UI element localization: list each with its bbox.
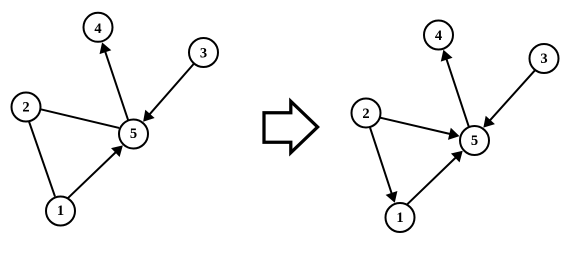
svg-text:1: 1 xyxy=(396,210,403,226)
node 2 circle (right graph) xyxy=(352,99,381,128)
wire edge 2 to 1 plain line (left graph) xyxy=(27,116,55,196)
block arrow symbol (implies / transform) xyxy=(264,101,318,152)
svg-text:1: 1 xyxy=(57,203,64,219)
wire edge 3 to 5 with arrowhead (left graph) xyxy=(143,60,197,122)
node 5 circle (right graph) xyxy=(460,126,489,155)
svg-text:4: 4 xyxy=(94,21,101,37)
node 5 circle (left graph) xyxy=(119,120,148,149)
svg-text:2: 2 xyxy=(22,100,29,116)
svg-text:5: 5 xyxy=(130,126,137,142)
wire edge 2 to 1 with arrowhead (right graph) xyxy=(368,122,397,203)
svg-text:3: 3 xyxy=(200,46,207,62)
node 4 circle (left graph) xyxy=(84,13,113,42)
wire edge 5 to 4 with arrowhead (right graph) xyxy=(441,50,471,132)
svg-text:2: 2 xyxy=(362,106,369,122)
node 4 circle (right graph) xyxy=(424,21,453,50)
wire edge 1 to 5 with arrowhead (right graph) xyxy=(403,151,463,209)
wire edge 5 to 4 with arrowhead (left graph) xyxy=(100,42,130,125)
wire edge 1 to 5 with arrowhead (left graph) xyxy=(64,145,123,202)
wire edge 2 to 5 with arrowhead (right graph) xyxy=(375,116,460,139)
node 3 circle (left graph) xyxy=(189,38,218,67)
node 3 circle (right graph) xyxy=(530,44,559,73)
svg-text:3: 3 xyxy=(540,51,547,67)
node 2 circle (left graph) xyxy=(12,93,41,122)
wire edge 2 to 5 plain line (left graph) xyxy=(35,108,119,128)
svg-text:5: 5 xyxy=(471,133,478,149)
node 1 circle (left graph) xyxy=(46,197,75,226)
node 1 circle (right graph) xyxy=(386,203,415,232)
svg-text:4: 4 xyxy=(435,28,442,44)
wire edge 3 to 5 with arrowhead (right graph) xyxy=(483,66,538,127)
